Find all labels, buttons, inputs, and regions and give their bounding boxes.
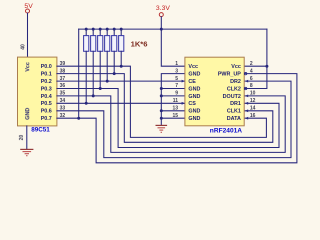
- svg-text:10: 10: [250, 91, 256, 97]
- wire P0.5 to U2 CS: [57, 102, 185, 104]
- wire U1 pin 20 to ground: [26, 126, 28, 149]
- svg-text:6: 6: [250, 76, 253, 82]
- wire P0.3 to U2 DR1: [57, 89, 279, 148]
- wire P0.1 to U2 CLK1: [57, 74, 273, 143]
- power port 5V: [24, 3, 33, 13]
- svg-text:1: 1: [175, 61, 178, 67]
- pin arrow 12: [245, 102, 248, 105]
- pin arrow 16: [245, 117, 248, 120]
- svg-text:DR1: DR1: [230, 101, 241, 107]
- svg-text:13: 13: [172, 106, 178, 112]
- junction R3 bottom on P0.3 wire: [99, 87, 102, 90]
- svg-text:8: 8: [250, 83, 253, 89]
- svg-text:3: 3: [175, 68, 178, 74]
- junction R2 top on rail: [92, 28, 95, 31]
- svg-text:GND: GND: [25, 108, 31, 120]
- resistor R6 1K: [119, 29, 124, 66]
- ground symbol under U2 GND bus: [156, 125, 168, 132]
- svg-text:9: 9: [175, 91, 178, 97]
- junction R5 top on rail: [113, 28, 116, 31]
- pin arrow CS: [182, 102, 185, 105]
- svg-text:4: 4: [250, 68, 253, 74]
- svg-text:DATA: DATA: [227, 116, 241, 122]
- svg-text:GND: GND: [188, 72, 200, 78]
- svg-text:CLK2: CLK2: [227, 86, 241, 92]
- wire P0.4 to U2 DOUT2: [57, 96, 285, 152]
- svg-text:CS: CS: [188, 101, 196, 107]
- pin arrow CE: [182, 80, 185, 83]
- ground symbol under 89C51: [20, 149, 33, 155]
- junction R6 bottom on P0.0 wire: [120, 65, 123, 68]
- resistor R5 1K: [112, 29, 117, 74]
- svg-text:7: 7: [175, 83, 178, 89]
- junction GND bus pin 15: [160, 117, 163, 120]
- svg-text:89C51: 89C51: [31, 127, 50, 134]
- wire U2 pin 15 GND stub: [161, 117, 185, 119]
- svg-text:Vcc: Vcc: [231, 64, 241, 70]
- junction rail-drop on P0.7 wire: [77, 117, 80, 120]
- wire U2 pin 13 GND stub: [161, 110, 185, 112]
- svg-text:GND: GND: [188, 86, 200, 92]
- pin arrow 14: [245, 109, 248, 112]
- svg-text:P0.2: P0.2: [41, 79, 52, 85]
- junction GND bus pin 9: [160, 94, 163, 97]
- junction GND bus pin 7: [160, 87, 163, 90]
- pin bubble 8: [244, 87, 246, 89]
- wire P0.7 to U2 PWR_UP: [57, 74, 297, 163]
- resistor R1 1K: [84, 29, 89, 103]
- wire 5V to U1 pin 40: [27, 13, 29, 57]
- svg-text:20: 20: [19, 135, 25, 141]
- junction R1 top on rail: [85, 28, 88, 31]
- svg-text:5: 5: [175, 76, 178, 82]
- junction R6 top on rail: [120, 28, 123, 31]
- junction GND bus pin 13: [160, 109, 163, 112]
- svg-text:12: 12: [250, 98, 256, 104]
- svg-text:3.3V: 3.3V: [156, 5, 170, 12]
- svg-text:P0.0: P0.0: [41, 64, 52, 70]
- svg-text:15: 15: [172, 113, 178, 119]
- svg-text:nRF2401A: nRF2401A: [210, 127, 242, 134]
- svg-text:P0.5: P0.5: [41, 101, 52, 107]
- wire rail left end down to P0.7 net: [78, 29, 80, 118]
- svg-text:PWR_UP: PWR_UP: [218, 72, 241, 78]
- resistor R3 1K: [98, 29, 103, 88]
- wire 3.3V rail to U2 pin 2 and pin 8: [244, 29, 267, 88]
- pin arrow 6: [245, 80, 248, 83]
- junction R3 top on rail: [99, 28, 102, 31]
- svg-text:11: 11: [173, 98, 179, 104]
- svg-text:GND: GND: [188, 94, 200, 100]
- IC U1 89C51: [18, 57, 57, 126]
- wire P0.0 to U2 DATA: [57, 66, 267, 137]
- svg-text:P0.3: P0.3: [41, 86, 52, 92]
- junction R5 bottom on P0.1 wire: [113, 72, 116, 75]
- junction R1 bottom on P0.5 wire: [85, 102, 88, 105]
- svg-text:DOUT2: DOUT2: [223, 94, 241, 100]
- wire P0.6 to U2 DR2: [57, 81, 291, 158]
- wire GND bus of U2: [161, 74, 185, 125]
- wire P0.2 to U2 CE: [57, 80, 185, 82]
- svg-text:P0.1: P0.1: [41, 72, 52, 78]
- IC U2 nRF2401A: [185, 57, 244, 126]
- svg-text:Vcc: Vcc: [25, 62, 31, 72]
- svg-text:P0.7: P0.7: [41, 116, 52, 122]
- pin bubble 4: [244, 72, 246, 74]
- wire U2 pin 1 Vcc to 3.3V drop: [161, 29, 185, 66]
- wire U2 pin 9 GND stub: [161, 95, 185, 97]
- junction 3.3V on rail: [160, 28, 163, 31]
- junction R4 top on rail: [106, 28, 109, 31]
- svg-text:GND: GND: [188, 116, 200, 122]
- power port 3.3V: [156, 5, 170, 29]
- wire U2 pin 7 GND stub: [161, 88, 185, 90]
- svg-text:14: 14: [250, 106, 256, 112]
- svg-text:2: 2: [250, 61, 253, 67]
- svg-text:CLK1: CLK1: [227, 109, 241, 115]
- svg-text:Vcc: Vcc: [188, 64, 198, 70]
- resistor R2 1K: [91, 29, 96, 96]
- junction R4 bottom on P0.2 wire: [106, 80, 109, 83]
- svg-text:P0.4: P0.4: [41, 94, 52, 100]
- pin arrow 10: [245, 95, 248, 98]
- svg-text:40: 40: [20, 44, 26, 50]
- wire U2 pin 2 stub: [244, 65, 267, 67]
- svg-text:16: 16: [250, 113, 256, 119]
- svg-text:P0.6: P0.6: [41, 109, 52, 115]
- svg-text:1K*6: 1K*6: [131, 39, 148, 48]
- svg-text:CE: CE: [188, 79, 196, 85]
- junction Vcc pin 2: [265, 65, 268, 68]
- junction R2 bottom on P0.4 wire: [92, 94, 95, 97]
- svg-text:GND: GND: [188, 109, 200, 115]
- svg-text:5V: 5V: [24, 3, 33, 10]
- power rail 3.3V wire: [79, 28, 267, 30]
- resistor R4 1K: [105, 29, 110, 81]
- svg-text:DR2: DR2: [230, 79, 241, 85]
